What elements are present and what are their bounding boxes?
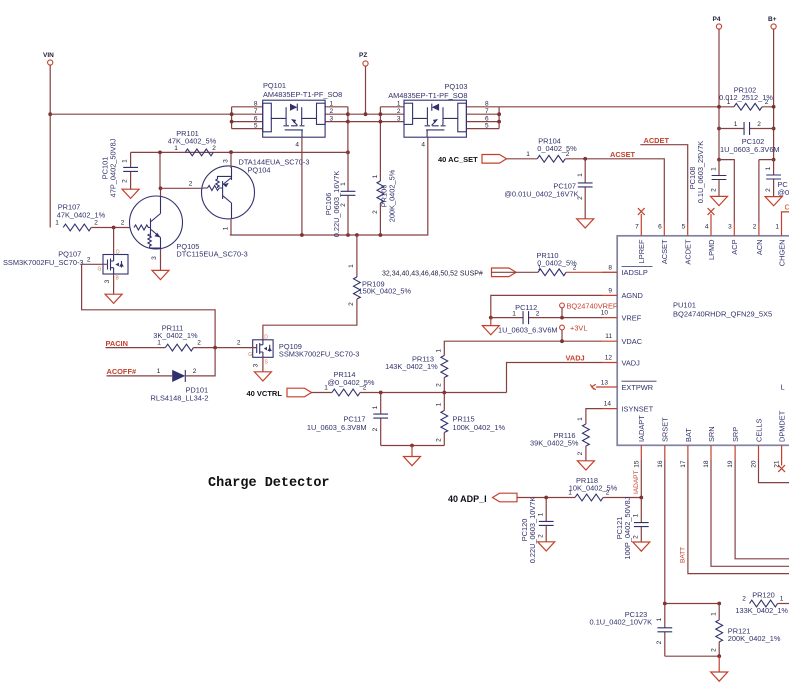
svg-text:BATT: BATT — [680, 547, 687, 563]
IC left pin names — [622, 267, 785, 414]
wire PR118 to IADAPT — [603, 460, 641, 498]
capacitor PC107 — [504, 159, 592, 219]
wire BAT — [688, 460, 789, 574]
svg-text:39K_0402_5%: 39K_0402_5% — [530, 438, 579, 447]
wire PD101 to PR111 junction — [185, 348, 215, 376]
net +3VL — [560, 324, 588, 342]
svg-text:14: 14 — [604, 401, 612, 408]
IC bottom pin names — [637, 410, 786, 442]
no-connect x LPMD — [708, 208, 715, 215]
wire PQ105 emitter to ground — [160, 249, 162, 270]
svg-text:3: 3 — [151, 256, 158, 260]
svg-text:ACSET: ACSET — [610, 150, 636, 159]
svg-text:SRN: SRN — [707, 426, 716, 442]
svg-text:6: 6 — [254, 115, 258, 122]
svg-text:100P_0402_50V8J: 100P_0402_50V8J — [623, 496, 632, 559]
svg-text:RLS4148_LL34-2: RLS4148_LL34-2 — [151, 394, 209, 403]
svg-text:1: 1 — [538, 512, 545, 516]
IC left pin numbers — [601, 264, 613, 407]
svg-text:133K_0402_1%: 133K_0402_1% — [735, 606, 788, 615]
svg-text:2: 2 — [189, 181, 193, 188]
wire PQ107 drain — [113, 228, 115, 255]
svg-text:PR120: PR120 — [752, 591, 775, 600]
svg-text:17: 17 — [680, 460, 687, 468]
svg-text:CHGEN: CHGEN — [777, 240, 786, 267]
wire PQ101 pin4 gate — [301, 137, 303, 235]
svg-text:D: D — [116, 250, 120, 256]
svg-text:1U_0603_6.3V6M: 1U_0603_6.3V6M — [498, 325, 558, 334]
svg-text:2: 2 — [330, 108, 334, 115]
svg-text:1: 1 — [436, 402, 443, 406]
svg-text:2: 2 — [536, 311, 540, 318]
svg-text:1: 1 — [577, 417, 584, 421]
ground PR121 — [718, 656, 720, 672]
port tag VCTRL — [287, 388, 312, 397]
svg-text:1: 1 — [372, 174, 379, 178]
svg-text:1: 1 — [711, 167, 718, 171]
IC top pin names — [637, 239, 786, 266]
svg-text:B+: B+ — [768, 16, 777, 23]
wire VREF — [491, 317, 602, 319]
svg-text:1: 1 — [734, 121, 738, 128]
svg-text:AM4835EP-T1-PF_SO8: AM4835EP-T1-PF_SO8 — [263, 90, 342, 99]
svg-text:47P_0402_50V8J: 47P_0402_50V8J — [109, 138, 118, 197]
svg-text:2: 2 — [212, 145, 216, 152]
svg-text:2: 2 — [711, 648, 718, 652]
wire VDAC — [444, 341, 602, 355]
port PZ — [359, 52, 368, 66]
svg-text:1: 1 — [711, 612, 718, 616]
IC bottom pin numbers — [633, 460, 780, 468]
svg-text:1: 1 — [727, 99, 731, 106]
svg-text:BQ24740RHDR_QFN29_5X5: BQ24740RHDR_QFN29_5X5 — [673, 310, 772, 319]
port tag AC_SET — [482, 155, 507, 164]
svg-text:1: 1 — [526, 151, 530, 158]
svg-text:200K_0402_5%: 200K_0402_5% — [388, 169, 397, 222]
svg-text:7: 7 — [254, 108, 258, 115]
svg-text:2: 2 — [606, 490, 610, 497]
net BQ24740VREF — [560, 302, 618, 318]
svg-text:2: 2 — [363, 385, 367, 392]
node VIN rail junction — [48, 112, 52, 116]
ground AGND — [490, 318, 492, 326]
svg-text:EXTPWR: EXTPWR — [622, 383, 654, 392]
ground PC121 — [633, 542, 650, 551]
wire mid-node rail A — [131, 151, 348, 153]
capacitor PC123 — [590, 604, 673, 657]
svg-text:PC112: PC112 — [515, 303, 537, 312]
wire SRP — [735, 460, 789, 559]
svg-text:2: 2 — [340, 203, 347, 207]
svg-text:ACP: ACP — [730, 239, 739, 254]
wire AC_SET to PR104 — [507, 158, 538, 160]
svg-text:2: 2 — [121, 220, 125, 227]
svg-text:18: 18 — [703, 460, 710, 468]
resistor PR104 — [526, 137, 577, 163]
svg-text:C: C — [785, 203, 789, 212]
no-connect x LPREF — [638, 208, 645, 215]
IC PU101 — [617, 236, 789, 445]
wire PQ104 emitter up — [230, 152, 232, 168]
svg-text:3: 3 — [330, 115, 334, 122]
svg-text:2: 2 — [753, 224, 757, 231]
svg-text:13: 13 — [601, 380, 609, 387]
svg-text:0.1U_0402_10V7K: 0.1U_0402_10V7K — [590, 618, 653, 627]
svg-text:PQ103: PQ103 — [444, 82, 467, 91]
wire PR110 to IADSLP pin — [566, 271, 617, 273]
svg-text:7: 7 — [485, 108, 489, 115]
port P4 — [713, 16, 722, 29]
svg-text:0_0402_5%: 0_0402_5% — [537, 258, 577, 267]
wire VIN vertical — [49, 65, 51, 227]
svg-text:40 ADP_I: 40 ADP_I — [448, 494, 487, 504]
svg-text:ACOFF#: ACOFF# — [107, 367, 137, 376]
svg-text:1: 1 — [512, 311, 516, 318]
svg-text:VREF: VREF — [622, 313, 642, 322]
svg-text:0.1U_0603_25V7K: 0.1U_0603_25V7K — [696, 141, 705, 204]
ground PC103 — [765, 197, 782, 206]
wire PC123 PR121 ground rail — [665, 655, 719, 657]
IC top pin numbers — [635, 224, 779, 231]
svg-text:5: 5 — [254, 122, 258, 129]
port B+ — [768, 16, 777, 29]
wire PACIN — [106, 347, 166, 349]
no-connect arrow EXTPWR — [590, 384, 596, 389]
net ACDET wire to pin 5 — [640, 145, 687, 222]
svg-text:1: 1 — [174, 145, 178, 152]
diode PD101 — [151, 368, 209, 403]
svg-text:VIN: VIN — [43, 52, 54, 59]
wire PQ104 collector down to gate rail — [230, 219, 232, 236]
svg-text:LPMD: LPMD — [707, 240, 716, 261]
svg-text:SSM3K7002FU_SC70-3: SSM3K7002FU_SC70-3 — [279, 350, 360, 359]
svg-text:2: 2 — [397, 108, 401, 115]
resistor PR118 — [568, 476, 617, 501]
resistor PR120 — [735, 591, 789, 615]
svg-text:B: B — [116, 276, 120, 282]
svg-text:40 VCTRL: 40 VCTRL — [247, 389, 283, 398]
wire SUSP# to PR110 — [516, 271, 538, 273]
wire IADSLP dark segment — [491, 271, 516, 273]
svg-text:PQ101: PQ101 — [263, 81, 286, 90]
node gate rail junctions — [300, 233, 304, 237]
no-connect x DPMDET — [778, 465, 785, 472]
capacitor PC108 — [688, 141, 726, 204]
svg-text:8: 8 — [254, 101, 258, 108]
svg-text:1: 1 — [397, 101, 401, 108]
ground PQ105 — [152, 270, 169, 279]
svg-text:DPMDET: DPMDET — [778, 410, 787, 442]
port VIN — [43, 52, 54, 65]
svg-text:3: 3 — [223, 159, 230, 163]
svg-text:S: S — [265, 360, 269, 366]
svg-text:VADJ: VADJ — [566, 354, 585, 363]
svg-text:6: 6 — [485, 115, 489, 122]
svg-text:1: 1 — [223, 226, 230, 230]
svg-text:12: 12 — [605, 355, 613, 362]
svg-text:2: 2 — [122, 179, 129, 183]
svg-text:1: 1 — [372, 405, 379, 409]
transistor PQ104 — [202, 158, 310, 219]
svg-text:DTC115EUA_SC70-3: DTC115EUA_SC70-3 — [176, 250, 247, 259]
transistor PQ109 — [248, 335, 359, 366]
svg-text:5: 5 — [682, 224, 686, 231]
wire PQ103 pin4 gate — [230, 137, 428, 235]
wire SRSET down — [665, 460, 719, 604]
svg-text:ACDET: ACDET — [644, 136, 670, 145]
ground PQ109 — [254, 372, 271, 381]
svg-text:@0_0402_5%: @0_0402_5% — [328, 378, 375, 387]
IC bottom pin stubs — [641, 445, 781, 465]
svg-text:1U_0603_6.3V6M: 1U_0603_6.3V6M — [720, 145, 780, 154]
resistor PR116 — [530, 417, 589, 461]
svg-text:PQ104: PQ104 — [248, 166, 271, 175]
resistor PR106 — [372, 169, 397, 235]
ground PR116 — [577, 461, 594, 470]
svg-text:2: 2 — [633, 535, 640, 539]
node PQ107 drain junction — [112, 226, 116, 230]
svg-text:PACIN: PACIN — [106, 339, 128, 348]
svg-text:2: 2 — [94, 220, 98, 227]
capacitor PC117 — [307, 393, 388, 446]
svg-text:6: 6 — [658, 224, 662, 231]
port tag SUSP# — [492, 268, 517, 277]
svg-text:1: 1 — [330, 101, 334, 108]
capacitor PC101 — [101, 138, 139, 197]
wire PQ103 left bar and stubs — [380, 107, 404, 181]
capacitor PC103 — [765, 160, 789, 197]
svg-text:IADAPT: IADAPT — [637, 415, 646, 442]
wire VCTRL to PR114 — [312, 392, 333, 394]
svg-text:20: 20 — [751, 460, 758, 468]
wire PQ104 base from PQ105 — [161, 187, 204, 189]
svg-text:2: 2 — [436, 383, 443, 387]
svg-text:1: 1 — [577, 173, 584, 177]
svg-text:2: 2 — [573, 264, 577, 271]
svg-text:1: 1 — [157, 368, 161, 375]
svg-text:1U_0603_6.3V8M: 1U_0603_6.3V8M — [307, 423, 367, 432]
svg-text:@0: @0 — [778, 188, 789, 197]
transistor PQ105 — [130, 196, 248, 259]
wire CHGEN pin1 — [782, 212, 789, 222]
svg-text:10K_0402_5%: 10K_0402_5% — [569, 484, 618, 493]
svg-text:AM4835EP-T1-PF_SO8: AM4835EP-T1-PF_SO8 — [388, 91, 467, 100]
svg-text:2: 2 — [372, 427, 379, 431]
wire divider ground rail — [381, 445, 445, 447]
svg-text:2: 2 — [577, 451, 584, 455]
svg-text:5: 5 — [485, 122, 489, 129]
svg-text:3: 3 — [397, 115, 401, 122]
svg-text:8: 8 — [485, 101, 489, 108]
resistor PR101 — [168, 129, 217, 156]
IC left pin stubs — [596, 272, 617, 408]
wire PQ105 collector up — [159, 152, 162, 196]
resistor PR107 — [55, 203, 130, 231]
svg-text:16: 16 — [657, 460, 664, 468]
svg-text:CELLS: CELLS — [754, 419, 763, 442]
svg-text:4: 4 — [705, 224, 709, 231]
svg-text:2: 2 — [197, 340, 201, 347]
svg-text:G: G — [98, 267, 102, 273]
svg-text:SRSET: SRSET — [661, 417, 670, 442]
wire PQ107 gate path — [82, 264, 216, 347]
svg-text:150K_0402_5%: 150K_0402_5% — [359, 287, 412, 296]
capacitor PC120 — [520, 497, 554, 564]
svg-text:ACSET: ACSET — [660, 239, 669, 264]
svg-text:2: 2 — [765, 99, 769, 106]
svg-text:2: 2 — [757, 121, 761, 128]
wire VADJ — [507, 363, 603, 393]
svg-text:G: G — [248, 352, 252, 358]
svg-text:1: 1 — [324, 385, 328, 392]
svg-text:1: 1 — [348, 264, 355, 268]
svg-text:VDAC: VDAC — [622, 337, 643, 346]
svg-text:BAT: BAT — [684, 428, 693, 442]
svg-text:BQ24740VREF: BQ24740VREF — [567, 302, 618, 311]
wire P4 vertical — [718, 29, 720, 160]
svg-text:IADSLP: IADSLP — [622, 268, 648, 277]
wire mid node rows between PQ101 and PQ103 — [348, 114, 381, 121]
svg-text:2: 2 — [237, 340, 241, 347]
svg-text:L: L — [781, 383, 785, 392]
svg-text:32,34,40,43,46,48,50,52 SUSP#: 32,34,40,43,46,48,50,52 SUSP# — [382, 271, 483, 278]
svg-text:11: 11 — [605, 333, 612, 340]
port tag ADP_I — [493, 493, 518, 502]
capacitor PC106 — [324, 152, 355, 237]
svg-text:2: 2 — [372, 210, 379, 214]
svg-text:1: 1 — [55, 220, 59, 227]
capacitor PC121 — [615, 496, 649, 559]
wire ISYNSET — [586, 409, 602, 424]
svg-text:AGND: AGND — [622, 291, 643, 300]
resistor PR114 — [324, 370, 375, 396]
svg-text:1: 1 — [765, 166, 772, 170]
wire PR111 to PQ109 gate — [193, 347, 256, 349]
svg-text:2: 2 — [87, 257, 91, 264]
svg-text:1: 1 — [157, 340, 161, 347]
resistor PR115 — [436, 393, 506, 446]
wire PQ101 left pin bar — [232, 107, 263, 129]
svg-text:3: 3 — [728, 224, 732, 231]
svg-text:2: 2 — [711, 188, 718, 192]
ground divider — [411, 446, 413, 457]
svg-text:+3VL: +3VL — [570, 324, 587, 333]
svg-text:1: 1 — [538, 264, 542, 271]
ground PC107 — [577, 219, 594, 228]
wire PQ109 source to ground — [262, 357, 264, 372]
resistor PR110 — [536, 251, 577, 276]
svg-text:2: 2 — [538, 534, 545, 538]
svg-text:19: 19 — [727, 460, 734, 468]
wire AGND to ground — [491, 295, 602, 317]
svg-text:@0.01U_0402_16V7K: @0.01U_0402_16V7K — [504, 190, 578, 199]
wire VIN rail to PQ101 — [50, 113, 231, 115]
svg-text:2: 2 — [765, 188, 772, 192]
svg-text:4: 4 — [421, 142, 425, 149]
transistor PQ103 — [388, 82, 489, 149]
svg-text:1: 1 — [656, 617, 663, 621]
wire top rail to P4 and B+ — [499, 106, 773, 108]
ground PC108 — [711, 196, 728, 205]
svg-text:2: 2 — [566, 151, 570, 158]
svg-text:3: 3 — [253, 363, 260, 367]
wire SRN — [711, 460, 789, 566]
wire PQ101 right stubs and bar — [325, 107, 348, 153]
svg-text:1: 1 — [633, 513, 640, 517]
svg-text:1: 1 — [775, 224, 779, 231]
svg-text:100K_0402_1%: 100K_0402_1% — [453, 423, 506, 432]
transistor PQ101 — [254, 81, 342, 149]
resistor PR111 — [153, 323, 201, 351]
svg-text:IADAPT: IADAPT — [633, 470, 640, 494]
svg-text:0_0402_5%: 0_0402_5% — [537, 144, 577, 153]
wire ACP to P4 — [719, 160, 734, 222]
svg-text:1: 1 — [340, 182, 347, 186]
svg-text:1: 1 — [568, 490, 572, 497]
ground PC120 — [538, 542, 555, 551]
svg-text:1: 1 — [122, 159, 129, 163]
resistor PR121 — [711, 604, 781, 657]
wire CELLS — [759, 460, 789, 483]
transistor PQ107 — [3, 250, 128, 282]
svg-text:VADJ: VADJ — [622, 358, 641, 367]
wire PQ103 right stubs and bar — [466, 107, 499, 129]
ground PQ107 — [105, 294, 122, 303]
svg-text:2: 2 — [193, 368, 197, 375]
svg-text:143K_0402_1%: 143K_0402_1% — [385, 362, 438, 371]
resistor PR113 — [385, 349, 448, 393]
wire ADP_I to PR118 — [517, 497, 575, 499]
svg-text:8: 8 — [608, 264, 612, 271]
svg-text:LPREF: LPREF — [637, 239, 646, 263]
svg-text:1: 1 — [436, 349, 443, 353]
svg-text:2: 2 — [577, 196, 584, 200]
svg-text:PU101: PU101 — [673, 301, 696, 310]
svg-text:ACDET: ACDET — [684, 239, 693, 265]
svg-text:1: 1 — [780, 596, 784, 603]
wire ACOFF# — [107, 375, 173, 377]
svg-text:15: 15 — [633, 460, 640, 468]
svg-text:0.22U_0603_10V7K: 0.22U_0603_10V7K — [528, 497, 537, 564]
svg-text:4: 4 — [295, 142, 299, 149]
svg-text:ACN: ACN — [755, 240, 764, 256]
wire PZ vertical — [365, 66, 367, 114]
IC top pin stubs — [641, 214, 781, 236]
svg-text:47K_0402_1%: 47K_0402_1% — [57, 211, 106, 220]
svg-text:3: 3 — [104, 279, 111, 283]
svg-text:200K_0402_1%: 200K_0402_1% — [728, 634, 781, 643]
svg-text:2: 2 — [348, 302, 355, 306]
svg-text:40 AC_SET: 40 AC_SET — [438, 155, 478, 164]
capacitor PC102 — [719, 121, 780, 154]
net ACSET wire to pin 6 — [565, 159, 664, 222]
svg-text:PZ: PZ — [359, 52, 367, 59]
svg-text:2: 2 — [656, 640, 663, 644]
svg-text:P4: P4 — [713, 16, 721, 23]
svg-text:21: 21 — [774, 460, 781, 468]
wire ACN to B+ — [759, 160, 774, 222]
svg-text:ISYNSET: ISYNSET — [622, 404, 654, 413]
svg-text:2: 2 — [742, 596, 746, 603]
wire B+ vertical — [773, 29, 775, 160]
wire divider rail — [360, 392, 507, 394]
resistor PR109 — [263, 235, 412, 340]
svg-text:2: 2 — [436, 438, 443, 442]
svg-text:D: D — [264, 335, 268, 341]
svg-text:Charge Detector: Charge Detector — [208, 476, 330, 491]
svg-text:9: 9 — [608, 287, 612, 294]
svg-text:SSM3K7002FU_SC70-3: SSM3K7002FU_SC70-3 — [3, 258, 84, 267]
